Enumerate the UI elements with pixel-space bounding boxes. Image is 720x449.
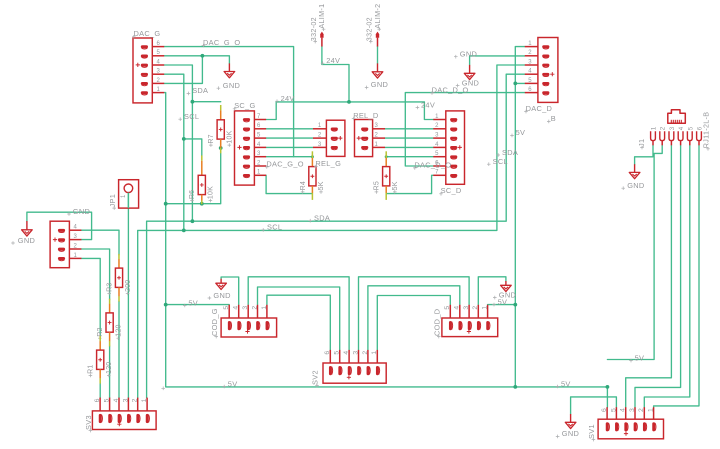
svg-text:200: 200 <box>125 280 132 292</box>
svg-text:1: 1 <box>648 408 655 412</box>
svg-text:24V: 24V <box>421 100 435 109</box>
wire DAC_D_O net: DAC_D p6 to SC_D p6 <box>405 93 525 166</box>
junction SCL drop on SCL rail <box>182 229 186 233</box>
wire SV1 p3 to RJ11 pin 4 <box>635 145 681 407</box>
wire R6 top connection to SCL vertical <box>184 139 202 156</box>
wire SV1 p1 to RJ11 pin 6 <box>654 145 699 407</box>
svg-text:2: 2 <box>132 398 139 402</box>
ground GND for DAC_D p2 <box>469 65 471 73</box>
svg-text:SC_G: SC_G <box>234 101 255 110</box>
svg-text:GND: GND <box>18 236 35 245</box>
svg-text:DAC_D_O: DAC_D_O <box>414 160 451 169</box>
junction DAC_G p5/p2/GND <box>201 54 205 58</box>
svg-text:JP1: JP1 <box>108 194 117 208</box>
svg-text:DAC_G_O: DAC_G_O <box>203 38 240 47</box>
junction R4 top <box>311 155 314 158</box>
resistor R5 lead top <box>385 151 387 158</box>
svg-text:SDA: SDA <box>314 214 330 223</box>
ground GND for RJ11 pin 1 <box>634 164 636 172</box>
pin J1 pin 6 <box>697 131 702 140</box>
resistor R6 lead top <box>201 155 203 160</box>
junction SDA to R7 <box>191 100 195 104</box>
pin J1 pin 3 <box>669 131 674 140</box>
connector SV3 6-pin header <box>92 398 156 430</box>
svg-text:1: 1 <box>261 306 268 310</box>
svg-text:DAC_D: DAC_D <box>526 104 553 113</box>
jumper JP1 <box>119 180 139 208</box>
svg-text:REL_G: REL_G <box>315 159 341 168</box>
junction 24V rail to ALIM-1 <box>347 100 351 104</box>
svg-text:R4: R4 <box>300 181 307 190</box>
connector REL_D 3-pin header <box>355 120 386 157</box>
junction 5V vertical on 5V rail <box>513 385 517 389</box>
wire 5V feed: RJ11 pin 2 down to 5V rail <box>607 145 662 359</box>
svg-text:4: 4 <box>113 398 120 402</box>
wire SC_G p3 row to R4 top <box>266 156 312 158</box>
wire R1 bottom to SV3 p6 <box>99 383 101 398</box>
supply pin ALIM-1 (332-02) <box>320 32 323 47</box>
svg-text:3: 3 <box>122 398 129 402</box>
wire COD_D p1 to 5V vertical <box>488 304 516 306</box>
ground arrow RJ11 <box>629 172 640 178</box>
junction 5V vertical to pullup return <box>164 202 168 206</box>
svg-text:4: 4 <box>678 126 685 130</box>
ground arrow COD_G <box>216 283 227 289</box>
svg-text:2: 2 <box>362 351 369 355</box>
connector J1 RJ11-2L-B jack symbol <box>668 110 686 124</box>
connector COD_G 5-pin header <box>221 305 277 337</box>
svg-text:1: 1 <box>482 306 489 310</box>
wire COD_G p1 to SV2 p6 <box>267 295 330 350</box>
svg-text:4: 4 <box>343 351 350 355</box>
svg-text:1: 1 <box>651 126 658 130</box>
svg-text:GND: GND <box>371 80 388 89</box>
svg-text:5K: 5K <box>318 181 325 190</box>
wire COD_G p4 to GND <box>221 277 239 305</box>
junction R6 bottom on pullup return <box>200 202 204 206</box>
ground arrow left <box>22 230 33 236</box>
resistor R1 lead top <box>99 336 101 341</box>
wire 5V net: DAC_G p1 down, 5V rail, to SV1 p6 <box>164 93 607 408</box>
connector SV1 6-pin header <box>598 407 663 439</box>
svg-text:SC_D: SC_D <box>441 186 462 195</box>
svg-text:R7: R7 <box>208 134 215 143</box>
svg-text:SV2: SV2 <box>311 370 320 385</box>
wire RJ11 pin 1 to GND <box>635 145 653 164</box>
junction SCL to R6 <box>182 137 186 141</box>
wire COD_D p4 to SV2 p2 <box>368 286 460 350</box>
junction DAC_D p5 on 5V vertical <box>513 82 517 86</box>
svg-text:24V: 24V <box>326 56 340 65</box>
wire REL_D p3 to SC_D p2 <box>385 128 433 130</box>
svg-text:5: 5 <box>104 398 111 402</box>
ground arrow SV1 <box>565 422 576 428</box>
junction SDA drop on SDA rail <box>191 219 195 223</box>
resistor R5 lead bottom <box>385 186 387 193</box>
svg-text:2: 2 <box>660 126 667 130</box>
svg-text:3: 3 <box>242 306 249 310</box>
svg-text:5: 5 <box>610 408 617 412</box>
pin J1 pin 2 <box>660 131 665 140</box>
svg-text:COD_G: COD_G <box>210 308 219 336</box>
wire SCL rail: SV3 p2 up, across, up to DAC_D p3 <box>138 65 525 398</box>
svg-text:B: B <box>551 114 556 123</box>
ground GND for COD_D p2 <box>505 281 507 285</box>
ground arrow ALIM-2 <box>372 72 383 78</box>
pin J1 pin 4 <box>678 131 683 140</box>
svg-text:SCL: SCL <box>493 157 508 166</box>
svg-text:10K: 10K <box>208 186 215 199</box>
svg-text:ALIM-1: ALIM-1 <box>317 4 326 29</box>
svg-text:SV3: SV3 <box>84 415 93 430</box>
svg-text:120: 120 <box>115 324 122 336</box>
svg-text:R5: R5 <box>374 181 381 190</box>
wire REL_D p2 to SC_D p3 <box>385 137 433 139</box>
pin J1 pin 5 <box>687 131 692 140</box>
ground GND near DAC_G <box>228 63 230 71</box>
svg-text:R1: R1 <box>88 365 95 374</box>
wire COD_D p3 to SV2 p3 <box>359 277 470 350</box>
wire COD_G p3 to SV2 p4 <box>248 277 349 350</box>
resistor R4 lead top <box>311 151 313 158</box>
svg-text:5V: 5V <box>516 128 526 137</box>
svg-text:GND: GND <box>223 81 240 90</box>
svg-text:4: 4 <box>233 306 240 310</box>
wire 5V to COD_G p5 <box>166 304 230 306</box>
svg-text:6: 6 <box>324 351 331 355</box>
svg-text:DAC_G: DAC_G <box>134 29 161 38</box>
wire GND net from DAC_G p5 to GND drop <box>164 56 229 64</box>
wire connector p2 to R2 top <box>81 249 109 300</box>
svg-text:GND: GND <box>460 50 477 59</box>
svg-text:3: 3 <box>669 126 676 130</box>
svg-text:5: 5 <box>687 126 694 130</box>
wire R2 bottom to SV3 p5 <box>109 346 111 398</box>
junction R5 top <box>385 155 388 158</box>
svg-text:5V: 5V <box>561 379 571 388</box>
svg-text:5V: 5V <box>498 297 508 306</box>
svg-text:4: 4 <box>620 408 627 412</box>
svg-text:5V: 5V <box>188 298 198 307</box>
wire SV1 p4 to RJ11 pin 3 <box>626 145 672 407</box>
wire SV1 p5 to GND <box>571 397 617 414</box>
resistor R4 lead bottom <box>311 186 313 193</box>
wire R7 bottom to 5V vertical <box>166 153 221 204</box>
resistor R4 5K <box>309 167 316 186</box>
svg-text:1: 1 <box>141 398 148 402</box>
wire DAC_G p2 to GND net corner <box>164 56 202 84</box>
svg-text:2: 2 <box>251 306 258 310</box>
connector REL_G 3-pin header <box>313 120 345 156</box>
wire SC_G p4 to REL_G p3 <box>266 146 313 148</box>
svg-text:5V: 5V <box>228 379 238 388</box>
ground GND near left connector <box>26 221 28 230</box>
svg-text:SV1: SV1 <box>587 424 596 439</box>
resistor R6 lead bottom <box>201 195 203 201</box>
resistor R7 lead top <box>220 105 222 110</box>
origin cross at 5V rail corner <box>161 387 165 391</box>
svg-text:R3: R3 <box>106 283 113 292</box>
svg-text:5K: 5K <box>392 181 399 190</box>
resistor R1 lead bottom <box>99 369 101 378</box>
wire connector p3 to GND <box>27 212 92 239</box>
resistor R2 120 <box>106 313 113 332</box>
svg-text:COD_D: COD_D <box>432 309 441 336</box>
wire DAC_G_O net: DAC_G p6 right then down to SC_G p3 row <box>164 47 293 157</box>
ground GND below ALIM-2 <box>377 63 379 71</box>
svg-text:1: 1 <box>371 351 378 355</box>
wire R7 top connection to SDA vertical <box>192 101 220 103</box>
junction 5V rail to SV1 p6 <box>606 385 610 389</box>
svg-text:10K: 10K <box>227 130 234 143</box>
svg-text:5: 5 <box>334 351 341 355</box>
connector SC_G 7-pin header <box>235 111 267 185</box>
wire JP1 pin 1 down to SV3 p3 <box>127 193 129 398</box>
wire COD_G p2 to SV2 p5 <box>258 287 340 350</box>
svg-text:GND: GND <box>627 181 644 190</box>
resistor R2 lead bottom <box>109 332 111 341</box>
ground arrow DAC_G p5 net <box>224 72 235 78</box>
connector DAC_D 6-pin header <box>525 38 558 103</box>
wire REL_D p1 to SC_D p4 <box>385 146 433 148</box>
svg-text:5V: 5V <box>635 353 645 362</box>
svg-text:SCL: SCL <box>184 112 199 121</box>
ground GND for COD_G p4 <box>220 279 222 283</box>
wire R5 top to SC_D p5 row <box>386 156 433 158</box>
junction COD_D p1 on 5V vertical <box>513 303 517 307</box>
pin J1 pin 1 <box>651 131 656 140</box>
svg-text:SDA: SDA <box>192 86 208 95</box>
resistor R3 lead top <box>118 254 120 259</box>
wire DAC_D p2 to GND drop <box>470 56 525 65</box>
wire SC_G p1 to R4 bottom <box>266 175 312 193</box>
svg-text:2: 2 <box>638 408 645 412</box>
resistor R6 10K (SCL pullup) <box>198 175 205 194</box>
wire SDA rail: SV3 p1 up, across, up to DAC_D p4 <box>147 74 525 398</box>
wire SC_G p5 to REL_G p2 <box>266 137 313 139</box>
wire 24V feed from ALIM-1 pin <box>322 46 349 102</box>
resistor R7 10K (SDA pullup) <box>217 120 224 139</box>
svg-text:DAC_D_O: DAC_D_O <box>432 85 469 94</box>
wire COD_D p2 to GND <box>478 277 506 305</box>
wire R5 bottom to SC_D p7 <box>386 175 433 193</box>
wire connector p1 to R1 top <box>81 258 100 337</box>
resistor R2 lead top <box>109 299 111 304</box>
junction 5V vertical to COD_G p5 <box>164 303 168 307</box>
svg-text:REL_D: REL_D <box>353 111 378 120</box>
wire 5V net: DAC_D p1 down to 5V rail <box>515 47 525 387</box>
ground GND for SV1 p5 <box>570 414 572 422</box>
svg-text:SCL: SCL <box>267 223 282 232</box>
svg-text:ALIM-2: ALIM-2 <box>373 4 382 29</box>
connector SC_D 7-pin header <box>433 111 464 184</box>
svg-text:R2: R2 <box>97 327 104 336</box>
ground arrow DAC_D p2 <box>464 73 475 79</box>
wire R3 bottom to SV3 p4 <box>118 301 120 398</box>
svg-text:6: 6 <box>94 398 101 402</box>
wire SC_G p6 to REL_G p1 <box>266 128 313 130</box>
resistor R1 120 <box>97 350 104 369</box>
supply pin ALIM-2 (332-02) <box>376 32 379 47</box>
svg-text:DAC_G_O: DAC_G_O <box>266 159 303 168</box>
wire SCL net: DAC_G p3 down to SCL rail <box>164 74 184 230</box>
svg-text:RJ11-2L-B: RJ11-2L-B <box>702 112 711 149</box>
wire ALIM-2 pin to GND <box>377 46 379 63</box>
svg-text:3: 3 <box>352 351 359 355</box>
resistor R5 5K <box>383 167 390 186</box>
resistor R7 lead bottom <box>220 139 222 148</box>
svg-text:120: 120 <box>106 362 113 374</box>
wire DAC_D p5 to 5V vertical <box>515 82 525 84</box>
connector 4-pin header left <box>50 221 81 268</box>
resistor R3 lead bottom <box>118 287 120 296</box>
svg-text:3: 3 <box>629 408 636 412</box>
svg-text:R6: R6 <box>189 190 196 199</box>
svg-text:GND: GND <box>562 429 579 438</box>
wire SV1 p2 to RJ11 pin 5 <box>644 145 690 407</box>
wire connector p4 to R3 top <box>81 230 119 255</box>
svg-text:24V: 24V <box>281 94 295 103</box>
connector SV2 6-pin header <box>323 350 386 383</box>
resistor R3 200 <box>115 268 122 287</box>
svg-text:2: 2 <box>472 306 479 310</box>
svg-text:4: 4 <box>454 306 461 310</box>
svg-text:GND: GND <box>73 207 90 216</box>
svg-text:SDA: SDA <box>502 148 518 157</box>
connector DAC_G 6-pin header <box>133 38 164 103</box>
junction R7 bottom lead <box>219 146 223 150</box>
wire COD_D p5 to SV2 p1 <box>377 296 450 350</box>
svg-text:5: 5 <box>444 306 451 310</box>
wire SDA net: DAC_G p4 down to SDA rail <box>164 65 192 221</box>
ground arrow COD_D <box>501 285 512 291</box>
svg-text:J1: J1 <box>637 139 646 147</box>
svg-text:GND: GND <box>213 291 230 300</box>
svg-text:3: 3 <box>463 306 470 310</box>
connector COD_D 5-pin header <box>442 305 498 337</box>
svg-text:5: 5 <box>223 306 230 310</box>
wire 24V net: SC_G p7 up, 24V rail, down to SC_D p1 <box>266 102 433 120</box>
svg-text:6: 6 <box>601 408 608 412</box>
